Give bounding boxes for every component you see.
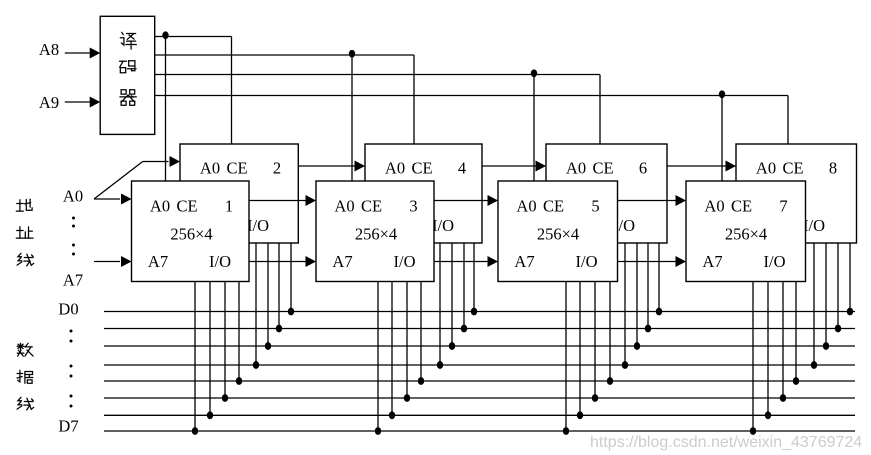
data line D3 [104,364,855,366]
svg-text:I/O: I/O [209,252,231,271]
label char 线 (address) [17,253,34,266]
svg-text:D0: D0 [58,300,78,319]
svg-text:CE: CE [543,197,564,216]
junction chip 6 pin 1 on D3 [622,361,628,369]
svg-text:I/O: I/O [803,216,825,235]
junction chip 8 pin 4 on D0 [847,308,853,316]
wire diagonal A0 branch [94,162,143,200]
wire I/O pin 2 of chip 4 to D2 [451,243,453,346]
memory chip U2 (256x4) box [180,144,298,243]
wire I/O pin 4 of chip 6 to D0 [658,243,660,312]
junction chip 3 pin 4 on D4 [418,377,424,385]
svg-text:A0: A0 [385,159,405,178]
label char 数 (data) [17,343,33,356]
arrow into chip 8 A0 [726,161,737,172]
junction chip 7 pin 3 on D5 [780,394,786,402]
wire A7 chain chip 5 to chip 7 [618,261,686,263]
svg-text:A7: A7 [702,252,722,271]
memory chip U1 (256x4) box [132,181,250,282]
svg-text:256×4: 256×4 [725,225,767,244]
svg-text:7: 7 [779,197,787,216]
svg-text:A8: A8 [39,40,59,59]
junction chip 8 pin 1 on D3 [811,361,817,369]
svg-text:8: 8 [829,159,837,178]
arrow into chip 5 A7 [488,256,499,267]
svg-text:5: 5 [591,197,599,216]
svg-text:256×4: 256×4 [537,225,579,244]
junction chip 5 pin 2 on D6 [577,411,583,419]
wire CE drop to chip 4 [413,55,415,144]
junction chip 1 pin 1 on D7 [192,427,198,435]
decoder label char 器 [120,90,136,106]
junction chip 2 pin 4 on D0 [288,308,294,316]
wire decoder output 1 horizontal [155,36,232,38]
data line D7 [104,430,855,432]
wire I/O pin 1 of chip 4 to D3 [439,243,441,365]
data line D1 [104,328,855,330]
wire I/O pin 2 of chip 7 to D6 [767,282,769,416]
junction chip 5 pin 3 on D5 [592,394,598,402]
junction chip 3 pin 2 on D6 [389,411,395,419]
wire I/O pin 1 of chip 2 to D3 [255,243,257,365]
junction chip 6 pin 4 on D0 [656,308,662,316]
junction chip 7 pin 4 on D4 [793,377,799,385]
wire I/O pin 2 of chip 3 to D6 [391,282,393,416]
wire A7 to chip 1 [94,261,120,263]
svg-text:https://blog.csdn.net/weixin_4: https://blog.csdn.net/weixin_43769724 [590,434,862,451]
wire I/O pin 2 of chip 8 to D2 [825,243,827,346]
arrow A7 into chip 1 [121,256,132,267]
wire I/O pin 3 of chip 8 to D1 [837,243,839,329]
wire A0 chain chip 5 to chip 7 [618,200,686,202]
junction chip 2 pin 1 on D3 [253,361,259,369]
svg-text:A0: A0 [566,159,586,178]
memory chip U8 (256x4) box [736,144,857,243]
wire A0 chain chip 4 to chip 6 [482,165,545,167]
data line D6 [104,414,855,416]
wire A0 branch to chip 2 [143,161,169,163]
junction chip 7 pin 2 on D6 [765,411,771,419]
label char 据 (data) [17,370,33,383]
wire decoder output 2 horizontal [155,54,414,56]
svg-text:1: 1 [225,197,233,216]
wire I/O pin 1 of chip 7 to D7 [752,282,754,432]
svg-text:I/O: I/O [247,216,269,235]
svg-text:256×4: 256×4 [170,225,212,244]
junction chip 6 pin 2 on D2 [634,342,640,350]
svg-text:D7: D7 [58,417,78,436]
junction chip 5 pin 4 on D4 [607,377,613,385]
arrow into chip 7 A7 [676,256,687,267]
svg-text:A7: A7 [148,252,168,271]
svg-text:A9: A9 [39,93,59,112]
junction chip 4 pin 1 on D3 [437,361,443,369]
decoder label char 译 [120,32,136,49]
wire decoder output 4 horizontal [155,95,788,97]
svg-text:A7: A7 [63,271,83,290]
wire CE drop to chip 8 [787,96,789,145]
svg-text:CE: CE [782,159,803,178]
svg-text:CE: CE [592,159,613,178]
wire I/O pin 2 of chip 1 to D6 [209,282,211,416]
data line D0 [104,311,855,313]
arrow A0 into chip 1 [121,194,132,205]
wire CE drop to chip 3 [351,55,353,181]
wire A8 to decoder [65,52,90,54]
svg-text:A0: A0 [63,187,83,206]
junction chip 2 pin 2 on D2 [265,342,271,350]
junction chip 7 pin 1 on D7 [750,427,756,435]
junction chip 8 pin 3 on D1 [835,325,841,333]
data line D2 [104,345,855,347]
svg-text:CE: CE [411,159,432,178]
junction on decoder output 2 [349,50,355,58]
wire A0 chain chip 2 to chip 4 [298,165,364,167]
junction chip 5 pin 1 on D7 [563,427,569,435]
svg-text:A0: A0 [200,159,220,178]
junction on decoder output 3 [531,69,537,77]
wire A9 to decoder [65,101,90,103]
svg-text:I/O: I/O [576,252,598,271]
label char 址 (address) [16,227,33,238]
arrow A8 into decoder [90,48,101,59]
junction chip 3 pin 3 on D5 [404,394,410,402]
svg-text:A0: A0 [704,197,724,216]
wire I/O pin 1 of chip 3 to D7 [377,282,379,432]
svg-text:A0: A0 [150,197,170,216]
ellipsis dots between A0 and A7 [72,217,75,220]
wire A0 chain chip 6 to chip 8 [667,165,735,167]
wire I/O pin 2 of chip 5 to D6 [579,282,581,416]
arrow into chip 4 A0 [355,161,366,172]
memory chip U3 (256x4) box [316,181,434,282]
wire decoder output 3 horizontal [155,74,600,76]
junction chip 4 pin 2 on D2 [449,342,455,350]
wire A0 chain chip 3 to chip 5 [434,200,497,202]
svg-text:CE: CE [361,197,382,216]
svg-text:3: 3 [409,197,417,216]
svg-text:2: 2 [273,159,281,178]
junction on decoder output 1 [162,31,168,39]
junction chip 4 pin 3 on D1 [461,325,467,333]
ellipsis dots between D0 and D7 [70,330,73,333]
wire A0 to chip 1 [94,198,120,200]
svg-text:I/O: I/O [764,252,786,271]
wire I/O pin 3 of chip 7 to D5 [782,282,784,399]
arrow into chip 7 A0 [676,195,687,206]
data line D4 [104,380,855,382]
wire CE drop to chip 5 [533,75,535,182]
wire I/O pin 2 of chip 6 to D2 [636,243,638,346]
wire CE drop to chip 6 [599,75,601,145]
wire I/O pin 4 of chip 8 to D0 [849,243,851,312]
junction chip 3 pin 1 on D7 [375,427,381,435]
wire I/O pin 4 of chip 3 to D4 [420,282,422,382]
wire I/O pin 1 of chip 8 to D3 [813,243,815,365]
wire I/O pin 3 of chip 1 to D5 [224,282,226,399]
wire I/O pin 4 of chip 5 to D4 [609,282,611,382]
label char 线 (data) [17,397,34,410]
svg-text:A0: A0 [756,159,776,178]
junction chip 8 pin 2 on D2 [823,342,829,350]
junction chip 1 pin 4 on D4 [236,377,242,385]
svg-text:256×4: 256×4 [355,225,397,244]
wire I/O pin 1 of chip 1 to D7 [194,282,196,432]
svg-text:6: 6 [639,159,647,178]
decoder U1 译码器 box [100,16,155,134]
data line D5 [104,397,855,399]
junction on decoder output 4 [719,90,725,98]
junction chip 6 pin 3 on D1 [645,325,651,333]
arrow into chip 3 A0 [306,195,317,206]
svg-text:4: 4 [458,159,466,178]
svg-text:I/O: I/O [432,216,454,235]
junction chip 4 pin 4 on D0 [471,308,477,316]
memory chip U6 (256x4) box [546,144,667,243]
svg-text:A0: A0 [516,197,536,216]
wire I/O pin 2 of chip 2 to D2 [267,243,269,346]
arrow A0 into chip 2 [170,156,181,167]
arrow into chip 3 A7 [306,256,317,267]
wire I/O pin 3 of chip 4 to D1 [463,243,465,329]
wire CE drop to chip 2 [231,37,233,145]
svg-text:CE: CE [226,159,247,178]
wire A7 chain chip 3 to chip 5 [434,261,497,263]
svg-text:I/O: I/O [394,252,416,271]
arrow into chip 5 A0 [488,195,499,206]
svg-text:A7: A7 [514,252,534,271]
arrow into chip 6 A0 [536,161,547,172]
wire CE drop to chip 7 [721,96,723,182]
memory chip U7 (256x4) box [686,181,806,282]
memory chip U5 (256x4) box [498,181,618,282]
wire A0 chain chip 1 to chip 3 [249,200,315,202]
wire I/O pin 3 of chip 3 to D5 [406,282,408,399]
wire I/O pin 1 of chip 6 to D3 [624,243,626,365]
wire I/O pin 4 of chip 7 to D4 [795,282,797,382]
wire I/O pin 4 of chip 4 to D0 [473,243,475,312]
svg-text:A7: A7 [332,252,352,271]
wire I/O pin 4 of chip 1 to D4 [238,282,240,382]
arrow A9 into decoder [90,97,101,108]
label char 地 (address) [16,199,32,211]
svg-text:A0: A0 [334,197,354,216]
wire I/O pin 1 of chip 5 to D7 [565,282,567,432]
wire A7 chain chip 1 to chip 3 [249,261,315,263]
junction chip 2 pin 3 on D1 [276,325,282,333]
junction chip 1 pin 2 on D6 [207,411,213,419]
memory chip U4 (256x4) box [365,144,482,243]
wire I/O pin 3 of chip 6 to D1 [647,243,649,329]
junction chip 1 pin 3 on D5 [222,394,228,402]
wire I/O pin 3 of chip 5 to D5 [594,282,596,399]
decoder label char 码 [120,61,137,73]
svg-text:CE: CE [731,197,752,216]
wire I/O pin 4 of chip 2 to D0 [290,243,292,312]
wire I/O pin 3 of chip 2 to D1 [278,243,280,329]
svg-text:CE: CE [176,197,197,216]
wire CE drop to chip 1 [165,37,167,182]
